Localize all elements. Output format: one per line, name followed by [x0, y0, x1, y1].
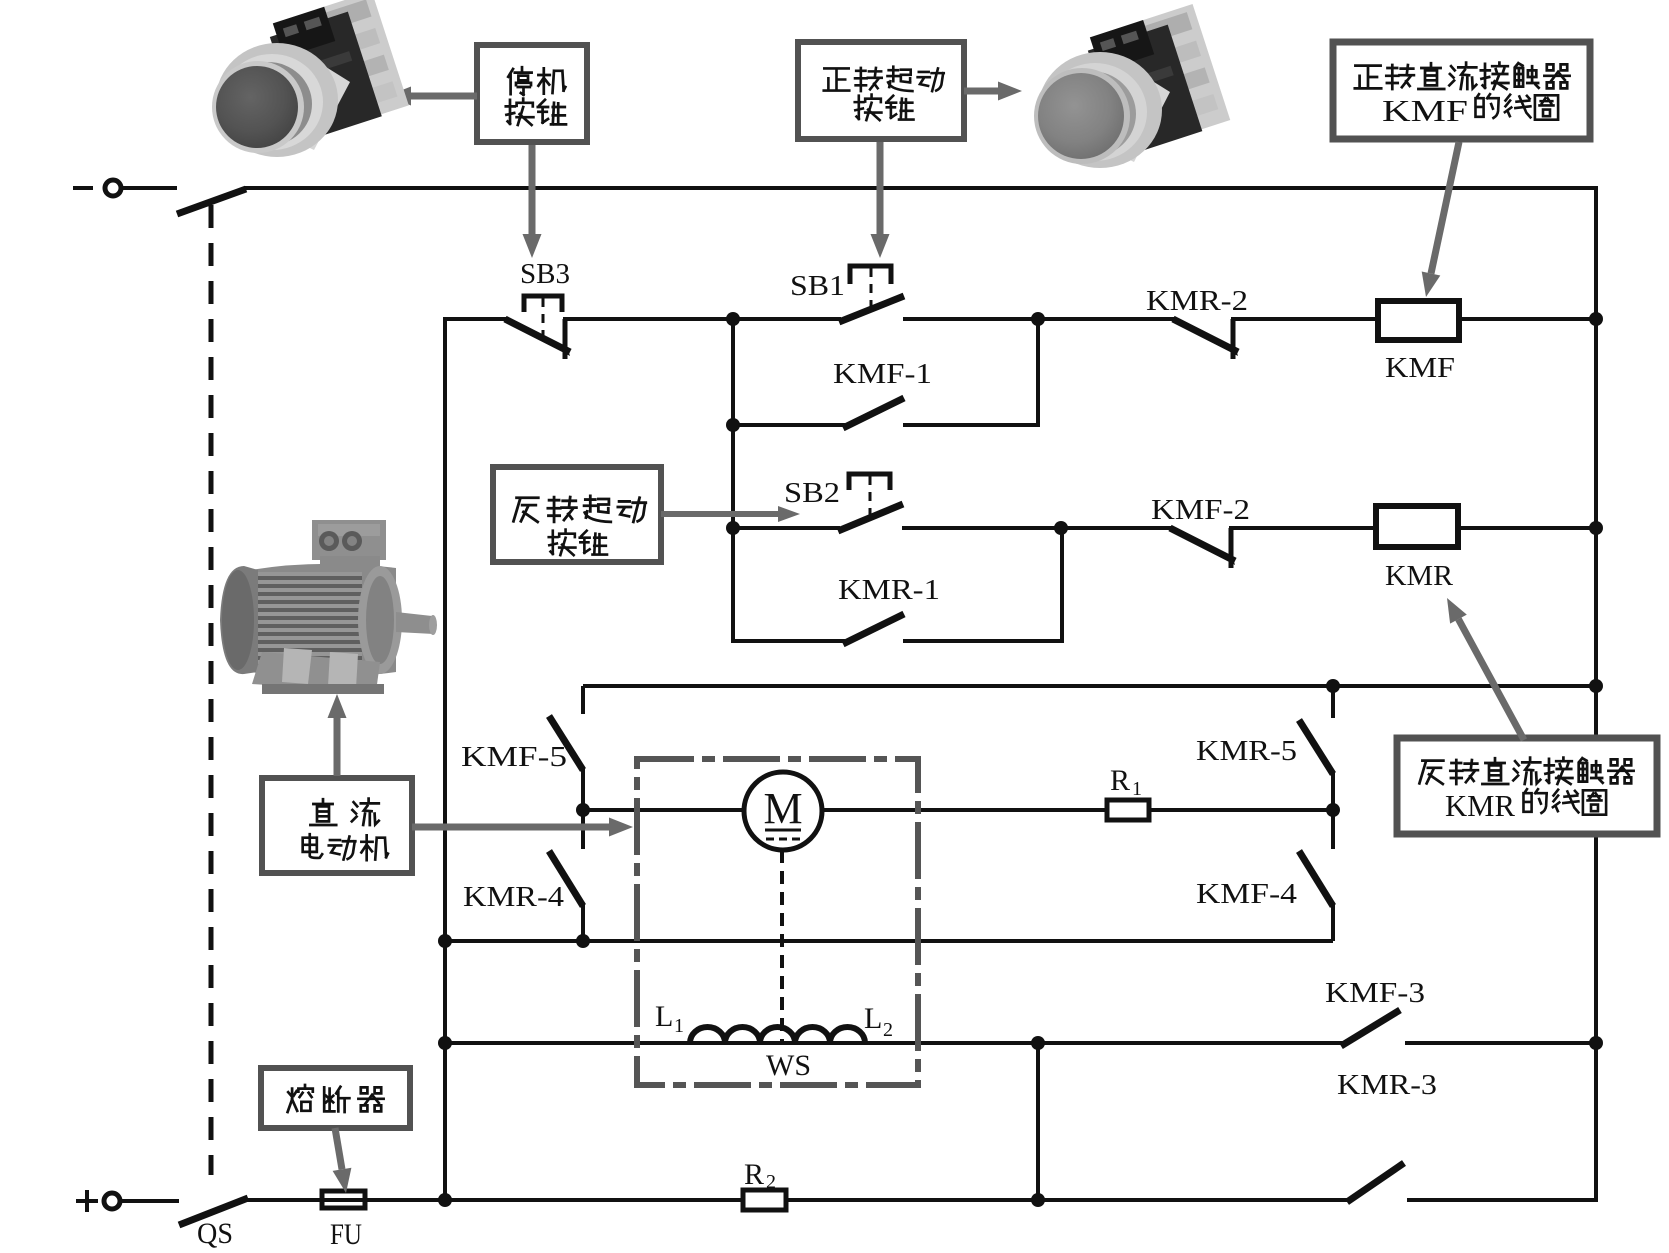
svg-text:KMR-2: KMR-2 [1146, 285, 1248, 317]
wire bottom rail left [120, 1199, 179, 1203]
photo: DC motor (left-middle) [220, 520, 437, 694]
svg-text:2: 2 [766, 1171, 776, 1193]
contact KMR-2 (NC interlock) [1173, 319, 1238, 359]
wire rung1 SB3 to SB1 [563, 317, 841, 321]
svg-text:SB2: SB2 [784, 477, 840, 509]
photo: stop pushbutton (top-left) [212, 0, 409, 157]
junction field line right rail [1589, 1036, 1603, 1050]
motor to field dashed link [780, 850, 784, 1042]
svg-text:KMR: KMR [1385, 560, 1454, 592]
label R2 [744, 1158, 776, 1193]
junction rung3 left [726, 521, 740, 535]
wire rung2 right [903, 319, 1038, 427]
junction rung1 right rail [1589, 312, 1603, 326]
svg-text:FU: FU [330, 1218, 362, 1248]
wire bottom rail middle [365, 1198, 743, 1202]
junction y941 KMR-4 [576, 934, 590, 948]
wire left control rail x445 [443, 317, 447, 1200]
junction rung3/KMR-1 right [1054, 521, 1068, 535]
wire motor line mid [820, 808, 1107, 812]
arrow callout to KMF coil [1422, 142, 1459, 297]
wire x1038 down [1036, 1043, 1040, 1200]
svg-text:R: R [1110, 764, 1130, 797]
junction rung1/KMF-1 right [1031, 312, 1045, 326]
junction y686 right rail [1589, 679, 1603, 693]
wire bottom rail to fuse [246, 1198, 322, 1202]
junction bottom rail x1038 [1031, 1193, 1045, 1207]
svg-text:KMR-1: KMR-1 [838, 574, 940, 606]
label KMF-5 [461, 741, 567, 773]
wire rung1 KMR-2 to coil [1231, 317, 1379, 321]
svg-text:KMR-3: KMR-3 [1337, 1069, 1437, 1101]
svg-text:QS: QS [197, 1217, 233, 1248]
junction bottom rail x445 [438, 1193, 452, 1207]
wire rung3 SB2 to KMF-2 [902, 526, 1172, 530]
wire rung3 left [733, 526, 840, 530]
svg-text:1: 1 [674, 1015, 684, 1037]
callout box: stop button (ting ji an niu) [477, 45, 587, 142]
svg-text:KMF-2: KMF-2 [1151, 494, 1250, 526]
arrow callout to motor symbol [412, 818, 633, 837]
pushbutton SB2 (NO reverse start) [838, 474, 903, 531]
junction field line left rail [438, 1036, 452, 1050]
label L2 [864, 1002, 893, 1041]
junction y941 left rail [438, 934, 452, 948]
wire right rail [1594, 186, 1598, 1202]
svg-text:KMF-5: KMF-5 [461, 741, 567, 773]
wire motor line right [1149, 808, 1333, 812]
label KMF-2 [1151, 494, 1250, 526]
label KMR-3 [1337, 1069, 1437, 1101]
arrow callout to forward button photo [964, 82, 1022, 101]
junction field line x1038 [1031, 1036, 1045, 1050]
coil KMR (reverse contactor) [1376, 506, 1458, 547]
contact KMR-5 (armature reverse) [1299, 686, 1333, 810]
wire bottom rail right [1407, 1198, 1598, 1202]
callout box: forward DC contactor KMF coil [1333, 42, 1590, 139]
wire field line right [1405, 1041, 1596, 1045]
callout box: reverse start button (fan zhuan qi dong / an niu) [493, 467, 661, 562]
wire armature top rail y686 [583, 684, 1598, 688]
svg-text:KMR-5: KMR-5 [1196, 735, 1297, 767]
contact KMR-1 (NO self-hold) blade [843, 614, 904, 644]
fuse FU [322, 1191, 365, 1208]
arrow callout to motor photo [328, 694, 347, 776]
callout box: DC motor (zhi liu / dian dong ji) [262, 778, 412, 873]
switch QS upper pole blade [177, 189, 246, 214]
contact KMR-4 (armature reverse) [549, 810, 583, 941]
junction motor line right [1326, 803, 1340, 817]
svg-text:KMF: KMF [1382, 93, 1468, 128]
wire rung4 right [903, 528, 1062, 643]
contact KMF-4 (armature forward) [1299, 810, 1333, 941]
label KMR-4 [463, 881, 565, 913]
inductor WS field winding [690, 1027, 865, 1043]
junction y686 KMR-5 [1326, 679, 1340, 693]
label KMR-2 [1146, 285, 1248, 317]
arrow callout to KMR coil [1447, 598, 1524, 740]
svg-text:1: 1 [1132, 778, 1142, 800]
arrow callout to SB2 [661, 506, 800, 522]
wire lower link y941 [445, 939, 1333, 943]
contact KMF-5 (armature forward) [549, 686, 583, 810]
wire rung1 SB1 to KMR-2 [903, 317, 1175, 321]
motor M armature [744, 772, 822, 850]
motor dash-dot boundary box [637, 759, 918, 1085]
arrow callout to SB1 [871, 142, 890, 258]
svg-text:L: L [864, 1002, 882, 1035]
wire rung4 left [733, 639, 845, 643]
label KMR-1 [838, 574, 940, 606]
resistor R2 [743, 1190, 786, 1210]
node plus terminal [76, 1190, 120, 1212]
label FU [330, 1218, 362, 1251]
label SB1 [790, 270, 845, 302]
contact KMF-2 (NC interlock) [1170, 528, 1235, 568]
svg-text:WS: WS [766, 1049, 811, 1082]
switch QS lower pole blade [179, 1198, 248, 1225]
junction motor line left [576, 803, 590, 817]
junction rung1/KMF-1 left [726, 312, 740, 326]
wire branch x733 down [731, 319, 735, 643]
svg-text:KMF: KMF [1385, 352, 1455, 384]
wire top rail [244, 186, 1598, 190]
wire rung1 left [443, 317, 507, 321]
svg-text:KMF-4: KMF-4 [1196, 878, 1298, 910]
label L1 [655, 1000, 684, 1037]
contact KMF-3 (field) blade [1341, 1010, 1400, 1046]
svg-text:KMF-1: KMF-1 [833, 358, 932, 390]
svg-text:SB3: SB3 [520, 258, 570, 290]
label SB3 [520, 258, 570, 290]
junction rung2 left [726, 418, 740, 432]
coil KMF (forward contactor) [1378, 301, 1459, 340]
pushbutton SB3 (NC stop) [505, 296, 570, 359]
wire rung2 left [733, 423, 845, 427]
wire rung3 coil to right rail [1458, 526, 1596, 530]
label QS [197, 1217, 233, 1250]
photo: forward start pushbutton (top-middle-right) [1034, 4, 1231, 168]
label KMR [1385, 560, 1454, 592]
svg-text:M: M [763, 784, 802, 833]
junction rung3 right rail [1589, 521, 1603, 535]
arrow callout to FU [333, 1128, 352, 1193]
wire field line [445, 1041, 1343, 1045]
label KMF-1 [833, 358, 932, 390]
arrow callout to stop button photo [387, 87, 477, 106]
svg-text:R: R [744, 1158, 764, 1191]
label R1 [1110, 764, 1142, 800]
resistor R1 [1107, 800, 1149, 820]
label KMF-4 [1196, 878, 1298, 910]
contact KMR-3 blade [1347, 1163, 1404, 1202]
callout box: reverse DC contactor KMR coil [1397, 738, 1657, 834]
callout box: fuse (rong duan qi) [261, 1068, 410, 1128]
node minus terminal [73, 180, 121, 196]
svg-text:KMR: KMR [1445, 788, 1515, 823]
label KMF [1385, 352, 1455, 384]
svg-text:KMF-3: KMF-3 [1325, 977, 1425, 1009]
svg-text:SB1: SB1 [790, 270, 845, 302]
contact KMF-1 (NO self-hold) blade [843, 398, 904, 428]
wire motor line left [583, 808, 746, 812]
svg-text:L: L [655, 1000, 673, 1033]
callout box: forward start button (zheng zhuan qi dong / an niu) [798, 42, 964, 139]
wire top rail left [121, 186, 177, 190]
wire rung3 KMF-2 to coil [1229, 526, 1377, 530]
wire rung1 coil to right rail [1459, 317, 1596, 321]
pushbutton SB1 (NO forward start) [839, 266, 904, 322]
arrow callout to SB3 [523, 145, 542, 258]
wire bottom rail right of R2 [786, 1198, 1347, 1202]
label KMR-5 [1196, 735, 1297, 767]
svg-text:2: 2 [883, 1019, 893, 1041]
svg-text:KMR-4: KMR-4 [463, 881, 565, 913]
dashed linkage QS poles [209, 205, 214, 1175]
label SB2 [784, 477, 840, 509]
label KMF-3 [1325, 977, 1425, 1009]
label WS [766, 1049, 811, 1082]
